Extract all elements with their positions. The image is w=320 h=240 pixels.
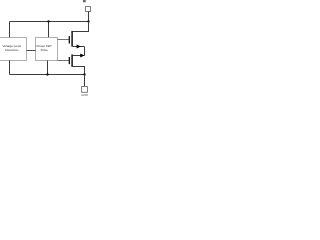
wire Q1 drain to top rail	[73, 22, 89, 32]
wire port P1 to top rail	[88, 12, 90, 22]
wire top rail down to U2	[48, 22, 50, 38]
net label VBAT (clipped at top edge)	[83, 0, 86, 2]
junction dot bottom rail / U2 stub	[46, 73, 48, 75]
wire top rail	[10, 21, 89, 23]
transistor Q1 gate bar	[68, 36, 70, 44]
wire U2 to gate Q2	[58, 60, 70, 62]
transistor Q2 channel bar	[71, 54, 73, 67]
junction dot bottom rail / Q2 drain	[83, 73, 85, 75]
transistor Q2 gate bar	[68, 57, 70, 64]
svg-text:Detection: Detection	[5, 48, 18, 52]
wire Q1 source	[73, 46, 85, 48]
arrow Q1 source	[77, 45, 81, 49]
wire U2 to gate Q1	[58, 39, 70, 41]
wire bottom rail to GND port	[84, 75, 86, 87]
block U2 Power FET Drive	[36, 38, 58, 61]
svg-text:GND: GND	[81, 93, 89, 97]
junction dot top rail / U2 stub	[47, 20, 49, 22]
port P2 GND square	[82, 87, 88, 93]
junction dot top rail / Q1 drain	[87, 20, 89, 22]
arrow Q2 source	[80, 54, 84, 58]
wire U1 bottom to bottom rail	[9, 61, 11, 75]
wire U1 output to U2 input	[27, 50, 36, 52]
wire Q2 source	[73, 55, 85, 57]
transistor Q1 channel bar	[71, 31, 73, 47]
wire top rail down to U1	[9, 22, 11, 38]
svg-text:Drive: Drive	[41, 48, 48, 52]
block U1 Voltage Level Detection	[0, 38, 27, 61]
wire U2 bottom to bottom rail	[47, 61, 49, 75]
wire Q2 drain to bottom rail	[73, 67, 85, 75]
port P1 square	[86, 7, 91, 12]
wire bottom rail	[10, 74, 85, 76]
wire common source link	[84, 47, 86, 56]
